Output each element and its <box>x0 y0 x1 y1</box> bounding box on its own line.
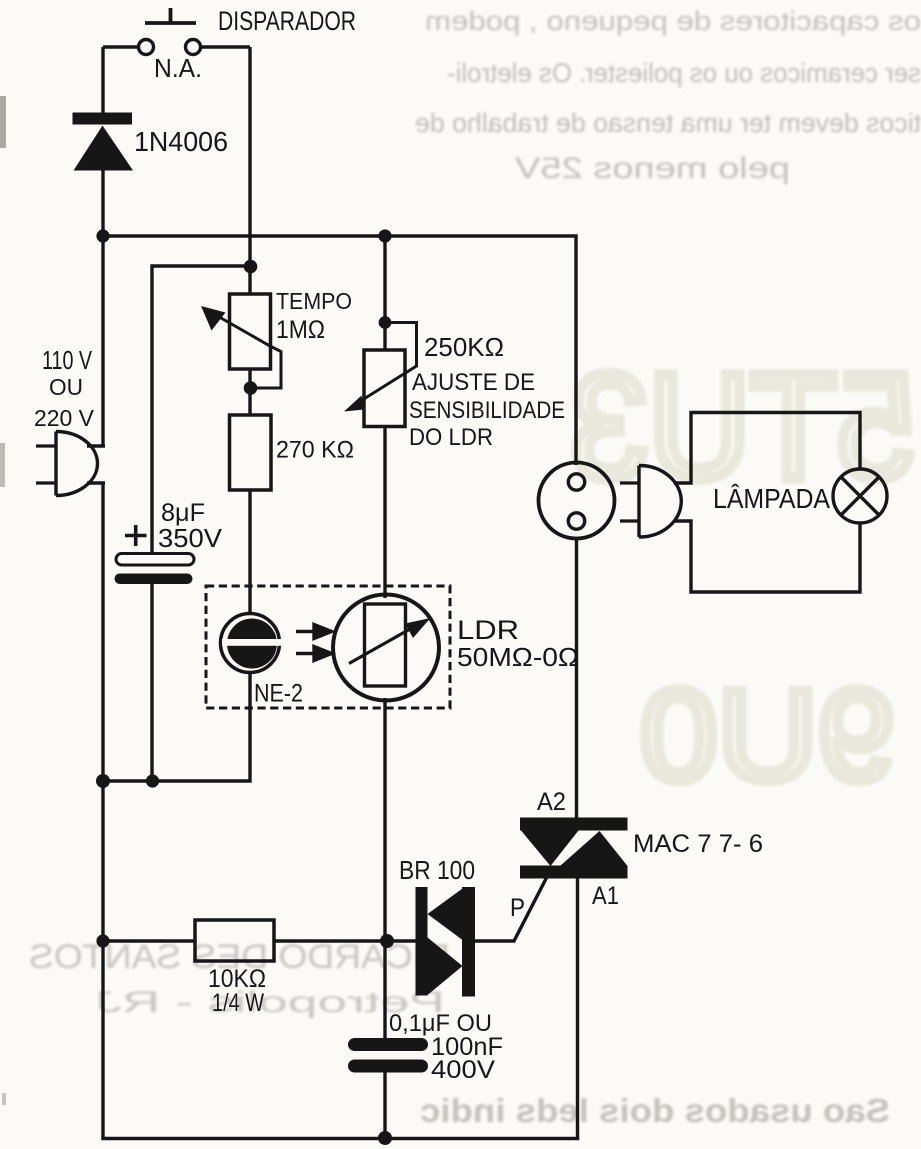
wire: 8uF cap bottom lead <box>150 584 153 781</box>
node at rail / 10K row <box>96 934 109 947</box>
svg-text:250KΩ: 250KΩ <box>424 332 504 362</box>
wire: 270K to NE-2 <box>248 490 251 613</box>
svg-text:ser ceramicos ou os poliester.: ser ceramicos ou os poliester. Os eletro… <box>447 58 921 88</box>
wire: socket to triac A2 <box>575 538 578 818</box>
node at tempo top <box>244 260 258 274</box>
pushbutton switch S1 N.A. (DISPARADOR) <box>139 8 201 55</box>
wire: diode to plug top <box>101 170 104 446</box>
node at 8uF bottom <box>146 774 159 787</box>
wire: LDR bottom long lead <box>383 698 386 1038</box>
node at 250K wiper <box>379 316 392 329</box>
dashed enclosure (NE-2 + LDR optocoupler) <box>206 586 450 708</box>
wire: diac to gate stub <box>475 868 552 941</box>
svg-text:os capacitores de pequeno , po: os capacitores de pequeno , podem <box>425 6 921 36</box>
wire: bottom return wire <box>101 1137 579 1140</box>
potentiometer P1 TEMPO 1M <box>207 294 281 388</box>
wire: 8uF tap horizontal <box>152 266 250 554</box>
svg-text:A1: A1 <box>592 882 619 910</box>
potentiometer P2 250K (ajuste de sensibilidade) <box>355 323 417 427</box>
neon lamp NE-2 <box>221 614 283 673</box>
capacitor C2 0.1uF 400V <box>348 1038 428 1073</box>
AC input plug 110V/220V <box>36 432 98 496</box>
node at bottom wire / cap <box>378 1131 392 1145</box>
wire: 0.1uF cap to bottom wire <box>383 1072 386 1138</box>
svg-text:DISPARADOR: DISPARADOR <box>218 6 356 36</box>
diac BR100 <box>416 887 476 997</box>
svg-text:A2: A2 <box>537 788 566 816</box>
lamp (LAMPADA) <box>833 469 887 523</box>
svg-text:110 V: 110 V <box>42 345 92 375</box>
svg-text:NE-2: NE-2 <box>254 680 303 708</box>
wire: left rail lower <box>101 483 104 1140</box>
wire: switch right branch down <box>248 47 251 294</box>
triac MAC 77-6 <box>520 818 628 879</box>
svg-text:OU: OU <box>49 374 83 400</box>
node at rail / NE-2 return <box>96 774 110 788</box>
wire: plug bottom stub <box>87 481 105 484</box>
wire: 10K row left <box>103 939 195 942</box>
svg-text:MAC 7 7- 6: MAC 7 7- 6 <box>633 830 763 858</box>
svg-text:AJUSTE DE: AJUSTE DE <box>412 369 535 396</box>
wire: top switch row <box>103 45 250 48</box>
wire: triac A1 down <box>576 878 579 1140</box>
node at diac left <box>380 934 394 948</box>
node at bus / LDR branch <box>378 229 391 242</box>
scan edge marks <box>0 96 6 1105</box>
svg-text:50MΩ-0Ω: 50MΩ-0Ω <box>457 642 579 672</box>
wire: left rail top to diode <box>101 47 104 113</box>
svg-text:1MΩ: 1MΩ <box>276 316 325 344</box>
lamp loop wiring <box>674 413 860 593</box>
svg-text:1N4006: 1N4006 <box>134 126 228 157</box>
svg-text:LDR: LDR <box>457 615 519 645</box>
svg-text:400V: 400V <box>431 1056 495 1084</box>
svg-text:ticos devem ter uma tensao de: ticos devem ter uma tensao de trabalho d… <box>415 108 921 138</box>
svg-text:270 KΩ: 270 KΩ <box>276 437 354 464</box>
wire: 250K pot to LDR <box>383 426 386 598</box>
svg-text:N.A.: N.A. <box>154 53 202 83</box>
electrolytic capacitor C1 8uF 350V <box>115 525 195 584</box>
bleed-through big headline letters (mirrored) <box>570 342 915 808</box>
wire: LDR branch top <box>383 236 386 350</box>
svg-text:350V: 350V <box>158 523 223 553</box>
svg-text:LÂMPADA: LÂMPADA <box>713 483 830 514</box>
node at bus left <box>96 229 109 242</box>
diode D1 1N4006 <box>73 113 134 171</box>
svg-text:220 V: 220 V <box>34 405 95 431</box>
resistor R2 10K 1/4W <box>195 920 274 961</box>
wire: NE-2 down and left to rail <box>103 673 250 781</box>
svg-text:Sao usados dois leds indic: Sao usados dois leds indic <box>420 1092 890 1129</box>
mains socket (tomada) <box>539 463 615 539</box>
wire: tempo pot to 270K <box>248 369 251 415</box>
svg-text:9U0: 9U0 <box>640 662 895 808</box>
wire: plug top stub <box>87 444 105 447</box>
svg-text:P: P <box>510 894 525 922</box>
wire: 10K row right to diac <box>274 939 416 942</box>
light arrows NE-2 to LDR <box>296 625 332 661</box>
wire: horizontal bus with socket drop <box>101 236 576 465</box>
resistor R1 270K <box>230 415 272 490</box>
node at tempo wiper / 270K <box>244 381 258 395</box>
svg-text:pelo menos 25V: pelo menos 25V <box>515 152 790 185</box>
svg-text:SENSIBILIDADE: SENSIBILIDADE <box>409 397 565 424</box>
LDR (50M-0 ohm) <box>333 595 439 701</box>
svg-text:DO LDR: DO LDR <box>409 424 493 451</box>
svg-text:1/4 W: 1/4 W <box>212 989 264 1017</box>
svg-text:BR 100: BR 100 <box>399 855 475 885</box>
lamp plug <box>620 466 681 538</box>
svg-text:TEMPO: TEMPO <box>276 288 352 314</box>
